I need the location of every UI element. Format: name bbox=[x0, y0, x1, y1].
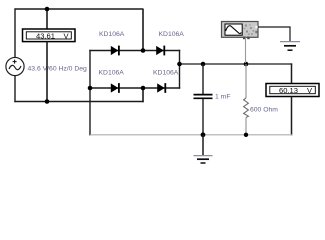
oscilloscope XSC1 bbox=[222, 22, 259, 40]
wire source bottom lead bbox=[14, 76, 16, 103]
wire top horizontal from source to bridge top midpoint bbox=[15, 8, 144, 10]
junction node rail at resistor / scope branch bbox=[244, 62, 249, 67]
junction node rail at capacitor branch bbox=[201, 62, 206, 67]
ground GND2 (top right, scope) bbox=[280, 42, 300, 51]
diode D3 KD106A (bottom left) bbox=[111, 83, 119, 93]
svg-text:1 mF: 1 mF bbox=[215, 94, 230, 101]
junction node rail at bridge right column bbox=[177, 62, 182, 67]
ground GND1 (bottom center) bbox=[194, 135, 213, 163]
diode D2 KD106A (top right) bbox=[156, 46, 164, 56]
wire bottom-left horizontal return to bridge bottom midpoint bbox=[14, 101, 143, 103]
wire bridge right column vertical bbox=[179, 50, 181, 89]
wire scope ground lead to right bbox=[258, 26, 291, 28]
resistor R1 bbox=[244, 64, 249, 135]
voltmeter M1 reading 43.61 V bbox=[23, 29, 76, 42]
svg-text:KD106A: KD106A bbox=[153, 70, 179, 77]
wire vertical down to top diode row midpoint bbox=[142, 9, 144, 51]
junction node bottom row midpoint bbox=[141, 86, 146, 91]
junction node top row midpoint bbox=[141, 48, 146, 53]
wire left vertical source top lead bbox=[14, 8, 16, 57]
wire voltmeter M2 top lead bbox=[291, 63, 293, 84]
svg-text:600 Ohm: 600 Ohm bbox=[250, 106, 278, 113]
diode D4 KD106A (bottom right) bbox=[157, 83, 165, 93]
svg-text:KD106A: KD106A bbox=[99, 70, 125, 77]
junction node bottom row left end bbox=[88, 86, 93, 91]
wire top diode row bbox=[89, 50, 180, 52]
junction node bottom rail at resistor bbox=[244, 133, 248, 137]
diode D1 KD106A (top left) bbox=[111, 46, 119, 56]
wire bottom return rail bbox=[90, 134, 292, 136]
junction node bottom rail at capacitor / ground bbox=[201, 132, 206, 137]
svg-text:KD106A: KD106A bbox=[159, 31, 185, 38]
junction node meter M1 bottom on return wire bbox=[45, 99, 50, 104]
junction node top wire / meter tap bbox=[45, 7, 50, 12]
wire voltmeter M2 bottom lead bbox=[291, 97, 293, 136]
wire scope probe lead down to output node bbox=[245, 38, 247, 64]
svg-text:43.6 V/60 Hz/0 Deg: 43.6 V/60 Hz/0 Deg bbox=[28, 65, 88, 72]
wire scope ground lead vertical bbox=[289, 27, 291, 41]
wire voltmeter M1 bottom lead bbox=[46, 42, 48, 102]
wire DC output rail (+) bbox=[180, 63, 293, 65]
wire vertical from bottom diode row midpoint bbox=[142, 88, 144, 102]
ac source V1 bbox=[6, 57, 24, 75]
voltmeter M2 reading 60.13 V bbox=[266, 84, 319, 97]
svg-text:43.61: 43.61 bbox=[36, 31, 55, 40]
capacitor C1 bbox=[194, 64, 213, 135]
svg-text:60.13: 60.13 bbox=[279, 86, 298, 95]
svg-text:KD106A: KD106A bbox=[99, 31, 125, 38]
wire bridge left column vertical bbox=[89, 50, 91, 136]
wire bottom diode row bbox=[89, 87, 180, 89]
wire voltmeter M1 top lead bbox=[46, 9, 48, 30]
